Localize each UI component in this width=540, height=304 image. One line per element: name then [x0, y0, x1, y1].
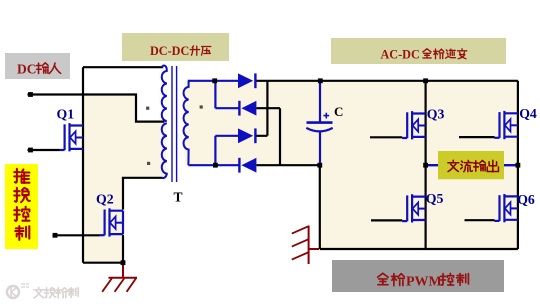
- wire bottom rail: [320, 165, 518, 249]
- wire D2 anode to V- link: [256, 108, 280, 165]
- wire Q3 gate: [370, 136, 402, 138]
- wire Q6 gate: [465, 219, 495, 221]
- node capacitor minus junction: [317, 163, 322, 168]
- transistor Q6: [494, 194, 518, 222]
- node DC input +: [28, 92, 33, 97]
- wire V+ rail: [255, 80, 518, 82]
- node Q2 source junction: [121, 260, 126, 265]
- wire Q2 source to ground node: [122, 235, 124, 263]
- svg-text:Q1: Q1: [57, 106, 75, 121]
- diode D1 rectifier top: [238, 73, 255, 88]
- diode D2 rectifier: [239, 101, 256, 116]
- wire middle column Q3 Q5: [425, 81, 427, 249]
- transformer phasing dot secondary: [200, 105, 203, 108]
- transistor Q2: [100, 208, 124, 236]
- ground at bridge bottom rail: [292, 226, 319, 265]
- wire left column through Q1: [82, 67, 84, 263]
- wire D3 anode lead: [215, 135, 238, 137]
- transformer phasing dot primary top: [146, 107, 149, 110]
- svg-text:DC: DC: [17, 61, 37, 76]
- wire Q5 gate: [371, 219, 402, 221]
- watermark: [7, 284, 78, 298]
- wire secondary bottom lead: [188, 164, 239, 166]
- capacitor C: [306, 82, 332, 164]
- node Q3 drain junction: [423, 78, 428, 83]
- wire D3 cathode to V+ link: [255, 81, 267, 136]
- wire secondary vertical links: [214, 81, 216, 165]
- svg-text:PWM: PWM: [406, 274, 442, 289]
- wire bottom left: [83, 262, 123, 264]
- wire Q4 gate: [459, 136, 495, 138]
- transistor Q5: [402, 194, 426, 222]
- wire Q2 drain: [122, 178, 124, 210]
- node AC output left junction: [423, 163, 428, 168]
- transformer T core: [171, 66, 173, 182]
- svg-text:Q3: Q3: [427, 106, 445, 121]
- ground under Q2: [102, 264, 137, 292]
- circuit interior background left: [83, 95, 166, 263]
- node secondary bottom junction: [213, 163, 218, 168]
- wire AC output left stub: [426, 164, 439, 166]
- label box AC output: [438, 151, 504, 179]
- svg-text:T: T: [174, 190, 183, 205]
- svg-text:Q2: Q2: [96, 192, 114, 207]
- transistor Q3: [402, 111, 426, 139]
- label box DC input: [5, 53, 70, 79]
- node secondary top junction: [212, 78, 217, 83]
- wire Q2 gate: [53, 234, 100, 236]
- wire rectifier minus rail: [256, 164, 319, 166]
- svg-text:Q4: Q4: [519, 106, 537, 121]
- label box full bridge PWM control: [332, 260, 504, 292]
- svg-text:Q5: Q5: [426, 191, 444, 206]
- svg-text:AC-DC: AC-DC: [381, 48, 420, 62]
- node Q1 gate terminal: [28, 148, 33, 153]
- transformer T primary winding: [162, 66, 167, 122]
- wire secondary top lead: [188, 80, 238, 82]
- circuit interior background right: [185, 81, 518, 249]
- transistor Q1: [60, 123, 84, 151]
- node AC output right junction: [516, 163, 521, 168]
- label box AC-DC full bridge inverter: [331, 38, 506, 64]
- wire D2 cathode lead: [215, 107, 238, 109]
- wire right column Q4 Q6: [517, 81, 519, 249]
- label box push-pull control: [5, 164, 38, 249]
- wire primary bottom lead: [122, 177, 163, 179]
- svg-text:DC-DC: DC-DC: [150, 44, 189, 58]
- diode D4 rectifier bottom: [239, 158, 256, 173]
- wire top to primary top: [83, 66, 163, 68]
- wire AC output right stub: [503, 164, 518, 166]
- node Q2 gate terminal: [53, 233, 58, 238]
- svg-text:Q6: Q6: [517, 192, 535, 207]
- transformer phasing dot primary bottom: [147, 162, 150, 165]
- node capacitor plus junction: [318, 78, 323, 83]
- transistor Q4: [494, 111, 518, 139]
- svg-text:C: C: [334, 104, 343, 119]
- wire DC+ input to transformer center tap: [28, 95, 165, 122]
- label box DC-DC boost: [122, 33, 229, 61]
- transformer T secondary winding: [184, 81, 189, 165]
- wire Q1 gate: [28, 149, 60, 151]
- diode D3 rectifier: [238, 128, 255, 143]
